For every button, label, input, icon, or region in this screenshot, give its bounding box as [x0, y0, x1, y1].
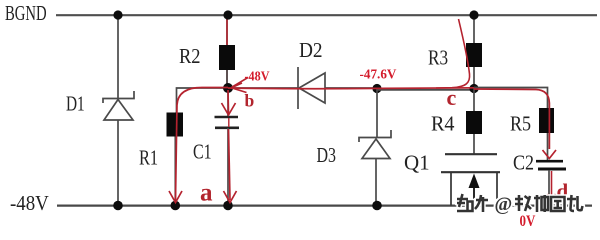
- red trace top dot to node b: [226, 17, 228, 84]
- node BGND label: [5, 1, 47, 24]
- svg-text:a: a: [200, 180, 213, 207]
- red trace below C1 to rail arrow a: [224, 129, 237, 203]
- svg-text:-48V: -48V: [245, 68, 271, 84]
- junction dot top right (474,14): [469, 10, 478, 19]
- wire mid horizontal b to D2: [228, 87, 298, 89]
- svg-text:D2: D2: [299, 39, 323, 62]
- wire D1 branch upper: [117, 14, 119, 98]
- label -48V red at node b: [245, 68, 271, 84]
- red trace node b left then down through R1 to rail arrow a: [169, 88, 228, 203]
- svg-text:-47.6V: -47.6V: [360, 66, 397, 81]
- resistor R5 body: [539, 108, 554, 133]
- wire node b to left corner: [176, 88, 229, 113]
- transistor Q1 substrate arrow: [469, 174, 480, 206]
- wire D1 branch lower: [117, 120, 119, 205]
- label R3: [428, 47, 448, 70]
- svg-text:Q1: Q1: [404, 151, 430, 175]
- watermark Zhihu 知乎@牧神园地 strokes: [457, 194, 583, 212]
- label 0V red: [520, 213, 537, 230]
- label a red: [200, 180, 213, 207]
- transistor Q1 right leg: [496, 172, 498, 199]
- wire D3 branch: [376, 88, 378, 137]
- transistor Q1 gate plate: [445, 153, 497, 155]
- label R4: [431, 113, 455, 135]
- svg-text:R1: R1: [139, 147, 158, 170]
- label d red: [557, 179, 569, 203]
- junction dot bottom R1 (176,204): [171, 201, 181, 211]
- svg-text:D3: D3: [317, 144, 337, 168]
- label R5: [510, 113, 531, 136]
- resistor R3 body: [466, 43, 482, 67]
- watermark Zhihu 知乎@牧神园地 white halo: [457, 194, 583, 212]
- svg-text:b: b: [245, 91, 255, 111]
- svg-text:R3: R3: [428, 47, 448, 70]
- node -48V label: [10, 192, 49, 215]
- wire R4 to Q1 gate: [473, 134, 475, 154]
- svg-text:@: @: [495, 194, 513, 215]
- resistor R2 body: [219, 45, 235, 70]
- wire R2 branch top: [226, 14, 228, 46]
- wire R1 to bottom rail: [174, 137, 176, 206]
- wire R5 to C2: [547, 133, 549, 160]
- red trace mid horizontal b to c: [228, 87, 474, 90]
- junction dot bottom C1 (228,204): [223, 201, 233, 211]
- resistor R1 body: [167, 113, 184, 137]
- diode D2 (cathode left): [298, 67, 325, 109]
- svg-text:C2: C2: [513, 152, 534, 175]
- wire C2 to bottom rail: [548, 170, 550, 206]
- label R1: [139, 147, 158, 170]
- label D1: [66, 92, 85, 115]
- svg-text:R2: R2: [179, 45, 201, 68]
- label b red: [245, 91, 255, 111]
- junction dot top-left (118,14): [113, 10, 122, 19]
- wire node c down to R4: [473, 88, 475, 111]
- svg-text:-48V: -48V: [10, 192, 49, 215]
- svg-text:D1: D1: [66, 92, 85, 115]
- transistor Q1 channel plate: [441, 171, 500, 173]
- wire mid junction to node c: [377, 89, 474, 91]
- label R2: [179, 45, 201, 68]
- svg-text:c: c: [447, 85, 457, 110]
- wire top rail BGND: [56, 14, 597, 16]
- wire node b to C1: [227, 88, 229, 116]
- svg-text:C1: C1: [193, 140, 212, 164]
- capacitor C2: [536, 161, 566, 169]
- label C1: [193, 140, 212, 164]
- diode D3 (zener, cathode up): [359, 130, 391, 159]
- capacitor C1: [215, 117, 240, 128]
- wire R3 branch top: [473, 14, 475, 44]
- junction dot node c (474,88): [469, 84, 478, 93]
- junction dot node b (228,88): [223, 83, 233, 93]
- svg-text:R4: R4: [431, 113, 455, 135]
- red arrow from -48V label into node b (long barbs): [232, 78, 249, 93]
- label D2: [299, 39, 323, 62]
- label D3: [317, 144, 337, 168]
- svg-text:BGND: BGND: [5, 1, 47, 24]
- wire D3 to bottom rail: [375, 159, 377, 206]
- wire R2 to node b: [226, 70, 228, 88]
- label c red: [447, 85, 457, 110]
- svg-text:R5: R5: [510, 113, 531, 136]
- red trace from top rail down elbow to mid wire at node c: [436, 19, 470, 88]
- wire bottom rail -48V: [57, 205, 592, 207]
- junction dot mid (377,88): [372, 84, 381, 93]
- red arrow node b down to C1: [222, 90, 236, 127]
- junction dot bottom-left (118,204): [113, 201, 123, 211]
- label C2: [513, 152, 534, 175]
- wire node c to right corner and down: [474, 88, 548, 109]
- transistor Q1 left leg: [450, 172, 452, 206]
- svg-text:0V: 0V: [520, 213, 537, 229]
- red trace below C2 to rail: [548, 171, 556, 201]
- junction dot top (228,14): [223, 10, 232, 19]
- wire D2 to D3 junction: [325, 87, 377, 89]
- wire C1 to bottom rail: [227, 128, 229, 205]
- junction dot bottom D3 (377,204): [372, 201, 382, 211]
- label -47.6V red: [360, 66, 397, 81]
- red trace node c to right corner down to C2 arrow: [474, 89, 556, 159]
- label Q1: [404, 151, 430, 175]
- wire R3 to node c: [473, 67, 475, 88]
- resistor R4 body: [466, 111, 482, 134]
- diode D1 (zener, cathode up): [103, 91, 134, 120]
